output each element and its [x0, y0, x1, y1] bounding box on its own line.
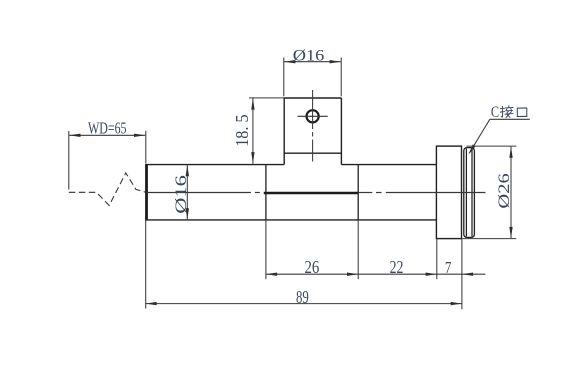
break line (dashed zigzag at left, object edge continuation) — [69, 173, 146, 206]
svg-text:26: 26 — [305, 257, 320, 277]
dimension 22 — [358, 257, 437, 277]
svg-text:89: 89 — [296, 287, 309, 307]
dimension Ø16 (top of boss) — [284, 47, 341, 96]
dimension 26 — [266, 257, 358, 277]
svg-text:WD=65: WD=65 — [88, 118, 127, 137]
middle section edge at x=266 — [265, 165, 267, 221]
thick dark centerline segment across middle section — [264, 192, 358, 195]
hanzi 接 — [500, 106, 513, 118]
hanzi 口 — [517, 108, 527, 117]
hole horizontal crosshair — [298, 115, 328, 117]
svg-text:7: 7 — [445, 258, 452, 277]
leader C接口 — [467, 104, 530, 156]
tube left end face (thick edge) — [145, 164, 148, 221]
svg-text:Ø16: Ø16 — [293, 47, 325, 64]
C-mount ring — [464, 148, 475, 238]
screw hole circle — [307, 110, 319, 122]
extension line x=145.4 below tube (for 89) — [145, 220, 147, 308]
extension line x=358 below tube (for 26/22) — [357, 220, 359, 279]
extension line x=266 below tube (for 26) — [265, 220, 267, 279]
dimension Ø16 (left, vertical) — [173, 165, 190, 221]
dimension 7 (arrows outside) — [437, 258, 486, 277]
middle section edge at x=358 — [357, 165, 359, 221]
dimension 18.5 (vertical, left of boss) — [232, 98, 284, 164]
extension line x=436.8 below flange (for 22/7) — [436, 239, 438, 280]
main horizontal centerline (dash-dot) — [147, 192, 486, 194]
dimension 89 (overall) — [145, 287, 462, 307]
vertical boss cylinder Ø16 on top — [284, 98, 341, 165]
dimension Ø26 (right, vertical) — [462, 146, 516, 239]
extension line x=461.9 below flange (for 7/89) — [461, 239, 463, 310]
svg-text:C: C — [491, 104, 499, 121]
flange Ø26 — [436, 146, 461, 239]
svg-text:Ø26: Ø26 — [496, 173, 513, 209]
svg-text:22: 22 — [390, 257, 404, 277]
hole vertical centerline (dash-dot) — [312, 90, 314, 162]
dimension WD=65 — [69, 118, 146, 189]
svg-text:18. 5: 18. 5 — [232, 114, 252, 147]
svg-text:Ø16: Ø16 — [173, 175, 190, 214]
lens barrel / tube outline — [146, 165, 436, 220]
